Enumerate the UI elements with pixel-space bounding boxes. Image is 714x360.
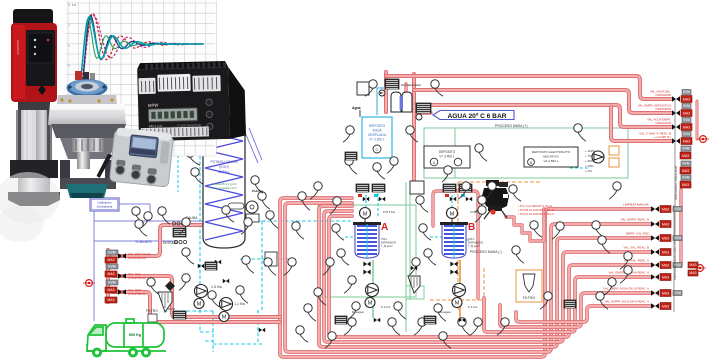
reactor B vessel [442, 224, 466, 258]
svg-text:VAL. EMPR. REAC. B: VAL. EMPR. REAC. B [621, 218, 649, 222]
svg-text:Tx 80-40ºC: Tx 80-40ºC [135, 240, 153, 244]
svg-text:MA3: MA3 [690, 271, 697, 275]
green line top proceso masa [424, 128, 628, 178]
pipe loop row 3 [319, 206, 652, 347]
svg-text:KVM: KVM [683, 162, 690, 166]
blue feed line to deposito [377, 88, 385, 115]
truck wheels [0, 0, 1, 1]
svg-text:MA3: MA3 [662, 208, 669, 212]
svg-text:.8: .8 [67, 3, 70, 7]
svg-text:AGUA: AGUA [372, 129, 382, 133]
pipe top route 2 [414, 90, 672, 113]
valve bottom row 7 [651, 290, 659, 296]
orange dashed line reactor B rail [430, 182, 540, 332]
svg-text:T_M procº: T_M procº [381, 244, 393, 248]
svg-text:P 4 Kw: P 4 Kw [381, 305, 391, 309]
tag plate left [265, 252, 277, 266]
svg-text:MA3: MA3 [662, 223, 669, 227]
svg-text:.6: .6 [67, 44, 70, 48]
green vertical rail between reactors [406, 182, 410, 332]
svg-text:MA3: MA3 [683, 126, 690, 130]
svg-text:1,1 Kw: 1,1 Kw [234, 302, 245, 306]
svg-text:KVM: KVM [683, 176, 690, 180]
svg-text:IONIZADOR: IONIZADOR [655, 93, 671, 97]
valve top row 3 [672, 124, 680, 130]
svg-text:MA3: MA3 [108, 258, 115, 262]
reactor B discharge pump [453, 284, 466, 297]
valve bottom row 5 [651, 262, 659, 268]
pipe loop row 4 [324, 211, 652, 342]
valve bottom row 4 [651, 249, 659, 255]
svg-text:DESTILADA: DESTILADA [368, 133, 387, 137]
svg-text:C: C [376, 147, 379, 152]
svg-text:KVM: KVM [674, 207, 681, 211]
valve bottom row 2 [651, 221, 659, 227]
svg-text:25,8% L: 25,8% L [218, 170, 230, 174]
truck tanker [86, 319, 166, 351]
cyan line tank to right [200, 221, 352, 310]
svg-text:DCM: DCM [168, 307, 175, 311]
green enclosure reactor A [318, 205, 416, 297]
photo flow monitor module [137, 60, 246, 141]
svg-text:MA3: MA3 [108, 288, 115, 292]
svg-text:P 4 Kw: P 4 Kw [468, 305, 478, 309]
svg-text:KVM: KVM [674, 291, 681, 295]
reactor A bottom valves [363, 261, 370, 266]
svg-text:V= 2.000 L: V= 2.000 L [369, 138, 385, 142]
svg-text:MA3: MA3 [662, 237, 669, 241]
right column extra blocks [681, 146, 691, 151]
pipe right lower column [679, 190, 682, 266]
valve bottom row 6 [651, 274, 659, 280]
pipe loop row 8 [516, 306, 652, 322]
svg-text:M: M [368, 301, 373, 307]
valve bottom row 1 [651, 206, 659, 212]
photo grundfos pump [8, 9, 60, 206]
reactor A vessel [355, 224, 379, 258]
svg-text:MA3: MA3 [690, 263, 697, 267]
svg-text:VA 4,500 L: VA 4,500 L [544, 159, 559, 163]
manifold gray+red blocks [106, 250, 118, 255]
electrolito pump [592, 151, 604, 163]
pipe reactor B enclosure [433, 191, 478, 298]
svg-text:MA3: MA3 [662, 264, 669, 268]
terminal block tank [172, 222, 175, 225]
orange boxes electrolito [609, 146, 619, 155]
svg-text:KVM: KVM [683, 90, 690, 94]
misc small valves [363, 197, 369, 201]
svg-text:MA3: MA3 [108, 298, 115, 302]
svg-text:• P=1,1 kw 100/100 S, 50 Hz: • P=1,1 kw 100/100 S, 50 Hz [518, 204, 553, 208]
utility box [357, 82, 369, 95]
svg-text:700 L: 700 L [468, 237, 475, 241]
svg-text:PROCESO / DESCARGA: PROCESO / DESCARGA [673, 246, 677, 280]
photo valve actuator [48, 71, 126, 198]
valve bottom row 8 [651, 303, 659, 309]
svg-text:t.u: t.u [72, 3, 76, 7]
valve top row 4 [672, 138, 680, 144]
reactor A motor [360, 208, 371, 219]
banner agua 20C 6 bar [433, 111, 514, 120]
svg-text:DEPOSITO ELECTROLITO: DEPOSITO ELECTROLITO [532, 150, 571, 154]
pipe right column [696, 101, 699, 139]
ionizador pump [416, 114, 422, 120]
pipe top route 3 [431, 105, 672, 127]
svg-text:MA3: MA3 [662, 251, 669, 255]
svg-text:EMPR. CAL ZINC: EMPR. CAL ZINC [626, 232, 649, 236]
svg-text:.5: .5 [67, 64, 70, 68]
svg-text:V= 2.400 L: V= 2.400 L [439, 155, 455, 159]
instrument balloons [365, 88, 373, 96]
svg-text:M: M [450, 212, 455, 218]
svg-text:MA3: MA3 [682, 183, 689, 187]
white tag box between reactors [410, 181, 424, 194]
svg-text:(KOH/OBCD): (KOH/OBCD) [128, 292, 146, 296]
reactor A manifold blocks [356, 184, 369, 192]
svg-text:PROCESO MASA (-): PROCESO MASA (-) [470, 250, 502, 254]
cyan control line main vertical [200, 150, 213, 332]
valve top row 1 [672, 96, 680, 102]
funnel filtro B [523, 274, 535, 292]
misc hatched blocks [345, 152, 357, 160]
svg-text:...: ... [362, 89, 365, 93]
manifold valves [118, 253, 126, 259]
manifold source dot [86, 280, 93, 287]
svg-text:MA3: MA3 [662, 276, 669, 280]
svg-text:LIMPIEZA MANUAL: LIMPIEZA MANUAL [623, 203, 649, 207]
svg-text:KVM: KVM [683, 118, 690, 122]
pipe manifold branch hot water in (ENTRADA) [112, 225, 202, 256]
svg-text:P=5,5 Kw: P=5,5 Kw [383, 210, 396, 214]
svg-text:M: M [363, 212, 368, 218]
comb marks below module [176, 137, 199, 148]
svg-text:DEPOSITO: DEPOSITO [369, 124, 386, 128]
dcm circles [174, 240, 177, 243]
reactor A coil [357, 225, 377, 227]
extra balloons [348, 310, 356, 319]
svg-text:KVM: KVM [674, 236, 681, 240]
pipe pump stubs bottom [372, 260, 374, 318]
bottom right red dot [697, 265, 704, 272]
chart panel [64, 0, 216, 156]
svg-text:DEPOSITO: DEPOSITO [439, 150, 456, 154]
green box small [406, 286, 424, 299]
cyan teal seg near B [446, 168, 590, 240]
svg-text:A: A [381, 222, 388, 233]
pipe cylinders stub [404, 84, 407, 92]
svg-text:ENTRADA: ENTRADA [163, 241, 179, 245]
reactor B motor [447, 208, 458, 219]
svg-text:KVM: KVM [683, 132, 690, 136]
svg-text:PROCESO MASA (+): PROCESO MASA (+) [495, 124, 528, 128]
svg-text:MA3: MA3 [682, 169, 689, 173]
svg-text:Densidad B=1,2 g/cm3: Densidad B=1,2 g/cm3 [211, 183, 237, 186]
svg-text:VAL. EMPR. AGUA DN 8 REAC. A: VAL. EMPR. AGUA DN 8 REAC. A [605, 300, 649, 304]
reactor B bottom valves [450, 261, 457, 266]
svg-text:MA3: MA3 [662, 292, 669, 296]
svg-text:IONIZADOR: IONIZADOR [655, 121, 671, 125]
bottom right rotated strip [673, 205, 675, 312]
pipe top route 1 to ionizador valve [386, 76, 672, 99]
deposito agua destilada [362, 117, 392, 158]
dcm blocks [173, 311, 186, 319]
right red dot [700, 136, 707, 143]
svg-text:EXPANSION: EXPANSION [468, 241, 483, 245]
mixer mill unit [486, 180, 499, 186]
descalcificador pump [379, 90, 385, 96]
svg-text:700 L: 700 L [381, 237, 388, 241]
svg-text:T_M procº: T_M procº [468, 244, 480, 248]
svg-text:• P=0,55 kw 100/100 S, 50 Hz: • P=0,55 kw 100/100 S, 50 Hz [518, 208, 554, 212]
svg-text:MA3: MA3 [682, 154, 689, 158]
svg-text:FILTRO: FILTRO [146, 309, 158, 313]
svg-text:.7: .7 [67, 23, 70, 27]
cyan stubs reactors [178, 150, 452, 237]
purple calibration net [94, 128, 262, 321]
svg-text:MA3: MA3 [108, 272, 115, 276]
descalcificador unit [385, 79, 399, 89]
inline valve dark [165, 281, 175, 291]
pipe loop row 5 [329, 216, 652, 337]
deposito positivo box [424, 146, 470, 168]
pipe top route 4 branch [611, 107, 672, 141]
svg-text:M: M [222, 315, 227, 321]
svg-text:Agua: Agua [352, 106, 361, 110]
svg-text:GRUNDFOS: GRUNDFOS [16, 40, 20, 55]
svg-text:IONIZADOR / PROCESO: IONIZADOR / PROCESO [674, 165, 678, 200]
pipe loop row 6 [484, 277, 652, 332]
pipe loop row 1 [280, 198, 652, 357]
svg-text:1,5 Kw: 1,5 Kw [211, 285, 222, 289]
svg-text:KVM: KVM [683, 147, 690, 151]
tank heating coil [205, 132, 243, 240]
svg-text:POTASA LIQUIDA: POTASA LIQUIDA [210, 160, 238, 164]
tank potasa liquida T1 [203, 124, 245, 248]
ionizador unit [416, 103, 431, 113]
pump P1 [195, 285, 208, 298]
tank agitator motor [246, 201, 258, 213]
svg-text:KVM: KVM [109, 281, 116, 285]
svg-text:• P=0,37 kw 100/100 S, 50 Hz: • P=0,37 kw 100/100 S, 50 Hz [518, 212, 554, 216]
pump P2 [220, 298, 233, 311]
balloon tank right [255, 184, 263, 193]
svg-text:MA3: MA3 [683, 112, 690, 116]
svg-text:+ LA DEP. B+: + LA DEP. B+ [654, 135, 671, 139]
svg-text:NEGATIVO: NEGATIVO [543, 155, 559, 159]
svg-text:KVM: KVM [109, 265, 116, 269]
svg-text:B: B [468, 222, 475, 233]
svg-text:+ 0%: + 0% [585, 169, 592, 173]
pipe staircase near mixer [506, 209, 544, 241]
pipe main vertical feed 2 [412, 74, 416, 182]
svg-text:+ 25%: + 25% [585, 164, 594, 168]
svg-text:KVM: KVM [109, 251, 116, 255]
svg-text:Centralizada: Centralizada [97, 205, 113, 209]
svg-text:MA3: MA3 [683, 140, 690, 144]
funnel hopper left [158, 292, 172, 312]
svg-text:(KOH/OBCD): (KOH/OBCD) [128, 256, 146, 260]
svg-text:MA3: MA3 [683, 98, 690, 102]
svg-text:(KOH): (KOH) [219, 165, 228, 169]
funnel between reactors [408, 276, 420, 293]
ion exchange cylinders [391, 92, 401, 112]
green enclosure around electrolito area [424, 128, 628, 178]
reactor B manifold blocks [443, 184, 456, 192]
reactor B coil [444, 225, 464, 227]
right rotated strip [674, 100, 676, 245]
svg-text:BPW: BPW [148, 103, 159, 108]
pipe manifold branch to bottom bus [112, 276, 280, 317]
pipe manifold vertical [106, 250, 110, 302]
svg-text:FILTRO: FILTRO [523, 296, 536, 300]
valve top row 2 [672, 110, 680, 116]
svg-text:Pull Kw: Pull Kw [252, 189, 264, 193]
svg-text:Descalcificador: Descalcificador [401, 83, 421, 87]
valve bottom row 3 [651, 235, 659, 241]
calibracion centralizada box [90, 198, 119, 211]
svg-text:KVM: KVM [683, 104, 690, 108]
deposito electrolito negativo [524, 147, 578, 167]
pipe manifold branch low [112, 292, 280, 322]
pipe loop row 2 [285, 203, 652, 352]
svg-text:M: M [455, 301, 460, 307]
pipe loop row 7 [500, 293, 652, 327]
pipe ion unit stub [417, 111, 431, 114]
pipe main vertical feed 1 [384, 72, 388, 112]
svg-text:IONIZADOR: IONIZADOR [655, 107, 671, 111]
reactor A discharge pump [366, 284, 379, 297]
svg-text:500 Kg: 500 Kg [129, 333, 142, 337]
svg-text:AGUA 20º C 6 BAR: AGUA 20º C 6 BAR [448, 113, 507, 120]
svg-text:Punto congelable +8ºC: Punto congelable +8ºC [211, 186, 237, 190]
svg-text:EXPANSION: EXPANSION [381, 241, 396, 245]
photo transmitter [96, 126, 174, 187]
svg-text:MA3: MA3 [662, 305, 669, 309]
svg-text:M: M [197, 302, 202, 308]
svg-text:(KOH/OBCD): (KOH/OBCD) [128, 276, 146, 280]
svg-text:VAL. SAL. REAC. B: VAL. SAL. REAC. B [624, 246, 650, 250]
cyan bottom web [164, 310, 262, 352]
photo ghost faded [0, 172, 60, 224]
orange filtro box [516, 270, 542, 302]
